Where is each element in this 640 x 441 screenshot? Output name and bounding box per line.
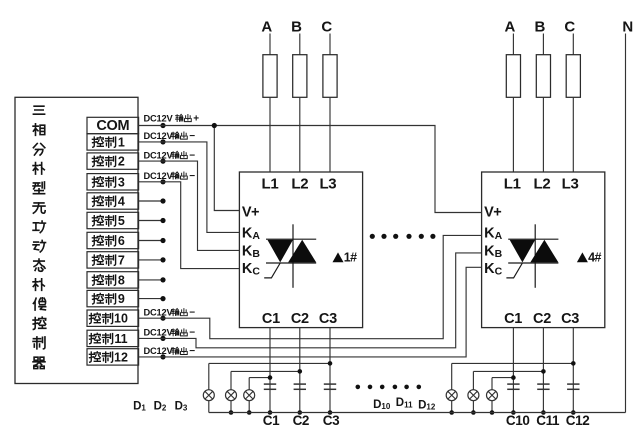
capacitor C1 plates <box>264 383 276 385</box>
bus junction dot lamp D3 <box>247 410 252 415</box>
svg-text:D11: D11 <box>396 397 413 409</box>
wire stub row 8 <box>139 279 165 281</box>
terminal row &#25511;&#21046;2 <box>87 153 139 169</box>
indicator lamp D2 <box>226 390 237 401</box>
capacitor C10 plates <box>507 383 519 385</box>
svg-text:L2: L2 <box>534 175 551 192</box>
junction dot row 0 <box>160 123 165 128</box>
indicator lamp D3 <box>244 390 255 401</box>
svg-text:4: 4 <box>118 195 125 209</box>
svg-text:KB: KB <box>242 243 260 259</box>
wire fuse to module1 L (left A) <box>269 97 271 172</box>
net ctrl1 to module1 KA <box>139 142 240 233</box>
wire stub row 5 <box>139 220 165 222</box>
fuse FU-A (right) <box>506 55 520 98</box>
bus junction dot C1 <box>268 410 273 415</box>
bus junction dot C3 <box>328 410 333 415</box>
svg-text:9: 9 <box>118 292 125 306</box>
wire lamp D12 bottom <box>491 401 493 413</box>
svg-text:1#: 1# <box>344 251 357 265</box>
svg-text:12: 12 <box>114 350 128 364</box>
fuse FU-B (left) <box>293 55 307 98</box>
svg-text:1: 1 <box>118 135 125 149</box>
wire lamp D2 to capacitor column <box>231 370 300 372</box>
svg-text:DC12V: DC12V <box>144 131 174 141</box>
wire fuse to module4 L (right C) <box>572 97 574 172</box>
svg-text:B: B <box>534 19 545 36</box>
svg-text:−: − <box>189 307 195 318</box>
junction dot row 3 <box>160 179 165 184</box>
wire stub row 6 <box>139 240 165 242</box>
wire B to fuse (right) <box>542 34 544 55</box>
wire lamp D1 to capacitor column <box>209 362 330 364</box>
net ctrl2 to module1 KB <box>139 161 240 250</box>
junction dot row 12 <box>160 354 165 359</box>
fuse FU-B (right) <box>536 55 550 98</box>
wire B to fuse (left) <box>299 34 301 55</box>
svg-text:C2: C2 <box>291 311 309 327</box>
wire C to fuse (left) <box>329 34 331 55</box>
terminal row &#25511;&#21046;9 <box>87 290 139 306</box>
junction dot row 8 <box>160 277 165 282</box>
junction dot row 6 <box>160 238 165 243</box>
wire lamp D11 bottom <box>472 401 474 413</box>
svg-text:L3: L3 <box>562 175 579 192</box>
wire lamp D11 top <box>472 371 474 390</box>
svg-text:DC12V: DC12V <box>144 113 174 123</box>
wire lamp D10 top <box>451 363 453 390</box>
svg-text:B: B <box>291 19 302 36</box>
svg-text:C1: C1 <box>263 413 280 428</box>
wire lamp D11 to capacitor column <box>473 370 543 372</box>
svg-text:−: − <box>189 150 195 161</box>
indicator lamp D1 <box>203 390 214 401</box>
svg-text:DC12V: DC12V <box>144 150 174 160</box>
wire lamp D3 to capacitor column <box>249 377 270 379</box>
svg-text:V+: V+ <box>242 205 259 221</box>
svg-text:KA: KA <box>484 226 502 243</box>
wire lamp D12 top <box>491 378 493 390</box>
capacitor C10 branch wire <box>512 328 514 413</box>
svg-text:C: C <box>321 19 332 36</box>
thyristor module 4# box <box>482 172 605 328</box>
svg-text:D2: D2 <box>154 400 167 412</box>
svg-text:10: 10 <box>114 312 128 326</box>
bus junction dot lamp D10 <box>449 410 454 415</box>
terminal row &#25511;&#21046;1 <box>87 134 139 150</box>
junction dot row 2 <box>160 159 165 164</box>
terminal row &#25511;&#21046;6 <box>87 232 139 248</box>
net ctrl11 to module4 KB <box>139 253 482 348</box>
net ctrl12 to module4 KC <box>139 267 482 357</box>
terminal row &#25511;&#21046;3 <box>87 174 139 190</box>
svg-text:DC12V: DC12V <box>144 328 174 338</box>
svg-text:+: + <box>193 113 199 124</box>
svg-text:4#: 4# <box>588 251 601 265</box>
capacitor C2 branch wire <box>299 328 301 413</box>
svg-text:N: N <box>622 19 633 36</box>
label DC12V output- (ctrl11) <box>144 328 196 339</box>
svg-text:KA: KA <box>242 226 260 243</box>
wire lamp D2 bottom <box>230 401 232 413</box>
neutral wire N vertical <box>625 34 627 413</box>
thyristor symbol 4# <box>506 224 558 287</box>
svg-text:D3: D3 <box>175 400 188 412</box>
junction dot D11 line <box>541 369 546 374</box>
wire A to fuse (left) <box>269 34 271 55</box>
terminal row &#25511;&#21046;4 <box>87 193 139 209</box>
net ctrl3 to module1 KC <box>139 182 240 269</box>
svg-text:C3: C3 <box>323 413 340 428</box>
bus junction dot C10 <box>511 410 516 415</box>
wire fuse to module1 L (left B) <box>299 97 301 172</box>
wire lamp D3 bottom <box>248 401 250 413</box>
bus junction dot C11 <box>541 410 546 415</box>
svg-text:L3: L3 <box>319 175 336 192</box>
svg-text:D12: D12 <box>418 399 436 411</box>
label DC12V output- (ctrl1) <box>144 131 196 142</box>
wire lamp D1 top <box>208 363 210 390</box>
svg-text:D1: D1 <box>133 400 146 412</box>
capacitor C3 plates <box>324 383 336 385</box>
fuse FU-C (right) <box>566 55 580 98</box>
capacitor C12 plates <box>567 383 579 385</box>
marker 1# <box>333 252 344 262</box>
thyristor symbol 1# <box>264 224 316 287</box>
capacitor C12 branch wire <box>572 328 574 413</box>
svg-text:C1: C1 <box>262 311 280 327</box>
svg-text:3: 3 <box>118 175 125 189</box>
svg-text:2: 2 <box>118 155 125 169</box>
terminal row &#25511;&#21046;8 <box>87 272 139 288</box>
wire lamp D12 to capacitor column <box>492 377 513 379</box>
svg-text:KC: KC <box>484 261 502 278</box>
svg-text:C12: C12 <box>566 413 590 428</box>
terminal row &#25511;&#21046;5 <box>87 212 139 228</box>
svg-text:5: 5 <box>118 214 125 228</box>
svg-text:6: 6 <box>118 234 125 248</box>
svg-text:L1: L1 <box>504 175 521 192</box>
wire stub row 7 <box>139 259 165 261</box>
svg-text:C1: C1 <box>504 311 522 327</box>
svg-text:L1: L1 <box>262 175 279 192</box>
svg-text:D10: D10 <box>373 399 391 411</box>
svg-text:DC12V: DC12V <box>144 171 174 181</box>
wire lamp D3 top <box>248 378 250 390</box>
junction dot row 9 <box>160 296 165 301</box>
svg-text:7: 7 <box>118 253 125 267</box>
label DC12V output- (ctrl2) <box>144 150 196 161</box>
svg-text:11: 11 <box>114 332 127 346</box>
label DC12V output+ (COM) <box>144 113 200 124</box>
wire lamp D10 to capacitor column <box>452 362 574 364</box>
svg-text:C3: C3 <box>561 311 579 327</box>
wire fuse to module4 L (right A) <box>512 97 514 172</box>
junction dot row 10 <box>160 316 165 321</box>
svg-text:A: A <box>504 19 515 36</box>
bus junction dot C2 <box>298 410 303 415</box>
capacitor C11 plates <box>537 383 549 385</box>
svg-text:C3: C3 <box>319 311 337 327</box>
svg-text:8: 8 <box>118 273 125 287</box>
svg-text:L2: L2 <box>291 175 308 192</box>
svg-text:−: − <box>189 131 195 142</box>
svg-text:KC: KC <box>242 261 260 278</box>
svg-text:−: − <box>189 328 195 339</box>
continuation dots (lamp groups 2..3) <box>356 385 422 390</box>
svg-text:KB: KB <box>484 243 502 259</box>
svg-text:C: C <box>564 19 575 36</box>
junction dot D1 line <box>328 361 333 366</box>
continuation dots (modules 2..3) <box>370 234 436 239</box>
wire stub row 4 <box>139 200 165 202</box>
wire A to fuse (right) <box>512 34 514 55</box>
fuse FU-C (left) <box>323 55 337 98</box>
bus junction dot lamp D12 <box>490 410 495 415</box>
junction dot D3 line <box>268 375 273 380</box>
terminal row &#25511;&#21046;12 <box>87 349 139 365</box>
wire lamp D2 top <box>230 371 232 390</box>
wire fuse to module4 L (right B) <box>542 97 544 172</box>
capacitor C1 branch wire <box>269 328 271 413</box>
neutral bottom bus <box>209 412 626 414</box>
svg-text:A: A <box>261 19 272 36</box>
svg-text:−: − <box>189 346 195 357</box>
wire lamp D1 bottom <box>208 401 210 413</box>
indicator lamp D11 <box>468 390 479 401</box>
svg-text:C10: C10 <box>506 413 530 428</box>
terminal row &#25511;&#21046;10 <box>87 310 139 326</box>
junction dot row 11 <box>160 336 165 341</box>
svg-text:−: − <box>189 171 195 182</box>
label DC12V output- (ctrl12) <box>144 346 196 357</box>
junction dot row 5 <box>160 218 165 223</box>
bus junction dot C12 <box>571 410 576 415</box>
svg-text:DC12V: DC12V <box>144 307 174 317</box>
svg-text:COM: COM <box>96 118 129 134</box>
net ctrl10 to module4 KA <box>139 235 482 338</box>
junction dot D12 line <box>511 375 516 380</box>
terminal row &#25511;&#21046;11 <box>87 330 139 346</box>
junction dot D10 line <box>571 361 576 366</box>
controller outer box <box>15 97 138 383</box>
label DC12V output- (ctrl10) <box>144 307 196 318</box>
marker 4# <box>577 252 588 262</box>
svg-text:DC12V: DC12V <box>144 346 174 356</box>
controller title (vertical): ä¸ç¸åè¡¥åæ åå¨æè¡¥å¿æ§å¶å¨ <box>33 106 46 368</box>
junction dot row 7 <box>160 257 165 262</box>
junction dot row 1 <box>160 139 165 144</box>
svg-text:V+: V+ <box>484 205 501 221</box>
wire C to fuse (right) <box>572 34 574 55</box>
wire lamp D10 bottom <box>451 401 453 413</box>
svg-text:C2: C2 <box>293 413 309 428</box>
thyristor module 1# box <box>239 172 362 328</box>
capacitor C3 branch wire <box>329 328 331 413</box>
svg-text:C11: C11 <box>536 413 560 428</box>
terminal row COM <box>87 117 139 133</box>
capacitor C11 branch wire <box>542 328 544 413</box>
fuse FU-A (left) <box>263 55 277 98</box>
indicator lamp D10 <box>446 390 457 401</box>
terminal row &#25511;&#21046;7 <box>87 252 139 268</box>
indicator lamp D12 <box>487 390 498 401</box>
svg-text:C2: C2 <box>533 311 551 327</box>
wire fuse to module1 L (left C) <box>329 97 331 172</box>
wire stub row 9 <box>139 298 165 300</box>
junction dot D2 line <box>298 369 303 374</box>
bus junction dot lamp D2 <box>229 410 234 415</box>
bus junction dot lamp D11 <box>471 410 476 415</box>
net +12V: COM to module1 V+ and module4 V+ <box>139 126 482 213</box>
label DC12V output- (ctrl3) <box>144 171 196 182</box>
junction dot row 4 <box>160 198 165 203</box>
capacitor C2 plates <box>294 383 306 385</box>
